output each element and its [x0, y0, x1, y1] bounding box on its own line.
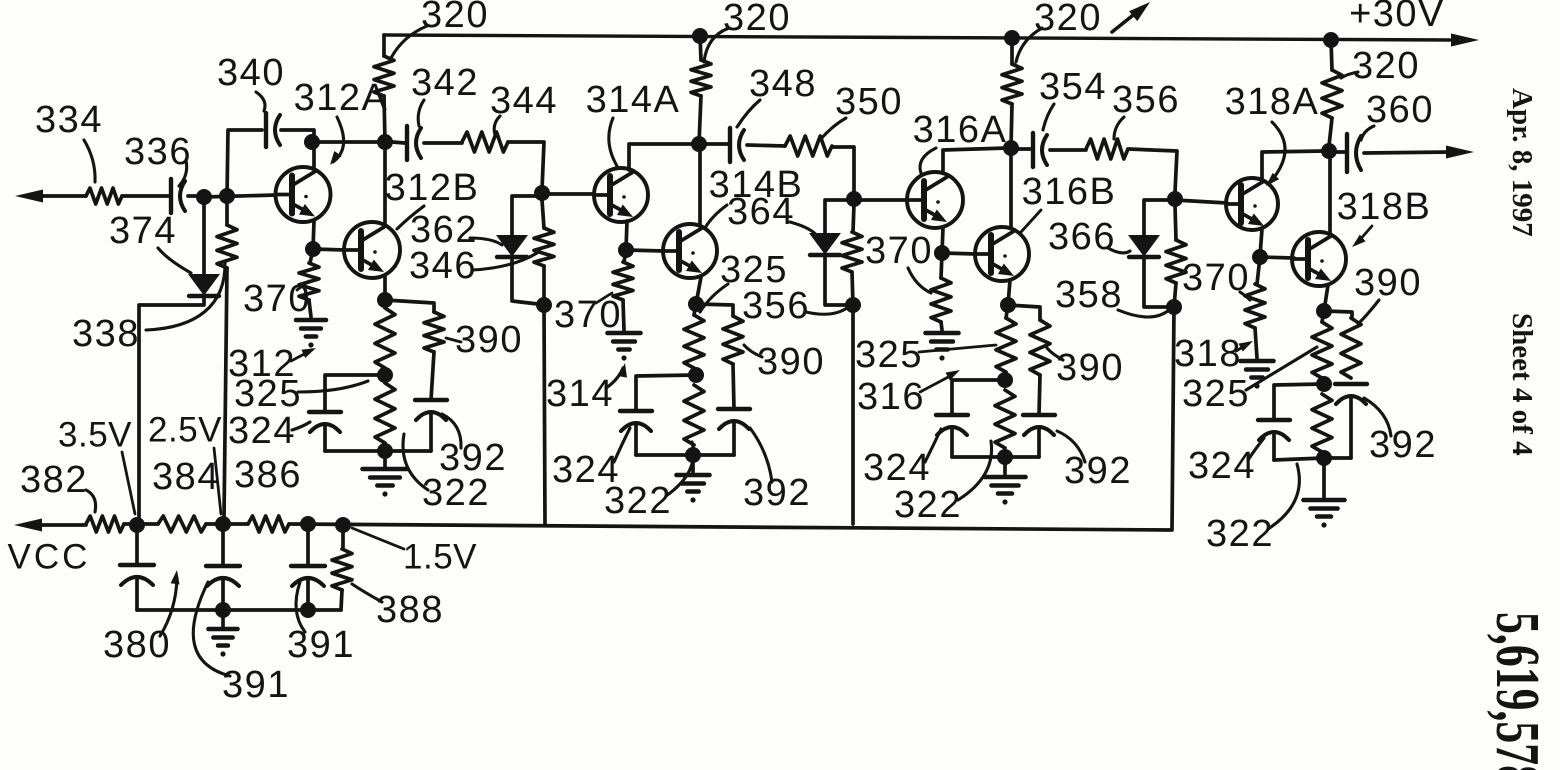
svg-text:VCC: VCC [8, 537, 91, 576]
wire cap392 bottom stage1 [385, 449, 431, 453]
node input A stage1 [196, 189, 212, 205]
resistor R325 stage3 upper [1006, 305, 1008, 318]
resistor R346 bias [542, 200, 544, 228]
resistor R358 bias stage4 [1175, 205, 1176, 240]
ground G322 stage3 [1003, 457, 1007, 474]
wire diode374 branch [202, 204, 206, 275]
wire diode366 bottom [1144, 257, 1168, 307]
input arrowhead 334 [15, 190, 43, 203]
wire emitter lead Q314A [626, 221, 627, 250]
wire base Q318B [1260, 257, 1294, 258]
wire base stage4 [1175, 200, 1227, 203]
resistor R338 bias [225, 203, 229, 225]
svg-text:325: 325 [234, 373, 302, 415]
node input stage4 [1167, 191, 1183, 207]
svg-text:370: 370 [243, 278, 311, 320]
svg-text:360: 360 [1366, 89, 1434, 131]
wire collector lead Q312B [383, 142, 387, 223]
transistor Q318A [1226, 178, 1278, 230]
svg-text:392: 392 [1369, 424, 1437, 466]
diode D366 [1130, 236, 1158, 255]
wire leader arrow top center [1112, 8, 1142, 32]
node rail-junction stage2 [692, 28, 708, 44]
svg-text:356: 356 [742, 285, 810, 327]
transistor Q318B [1292, 232, 1346, 286]
node mid divider stage4 [1316, 376, 1332, 392]
svg-text:342: 342 [411, 62, 479, 104]
resistor R320 stage2 [700, 36, 701, 60]
wire collector node stage1 [312, 140, 385, 144]
wire base stage1 [204, 195, 276, 197]
wire base stage3 [854, 198, 907, 202]
wire ground bus [137, 608, 341, 612]
wire emitter lead Q312A [313, 221, 314, 249]
svg-text:5,619,578: 5,619,578 [1483, 612, 1551, 770]
svg-text:390: 390 [757, 341, 825, 383]
wire base Q314B [626, 250, 664, 251]
svg-text:386: 386 [234, 454, 302, 496]
svg-text:388: 388 [376, 589, 444, 631]
wire collector lead Q314B [698, 144, 702, 225]
svg-text:354: 354 [1039, 66, 1107, 108]
resistor R390 stage3 [1008, 305, 1040, 320]
capacitor C360 output [1336, 150, 1345, 154]
svg-text:334: 334 [35, 99, 103, 141]
svg-text:338: 338 [72, 313, 140, 355]
capacitor C391a [221, 524, 225, 566]
svg-text:358: 358 [1055, 274, 1123, 316]
resistor R320 stage4 [1331, 40, 1332, 70]
resistor R325 stage2 upper [694, 304, 696, 315]
transistor Q316A [907, 172, 963, 228]
wire collector link Q316A [943, 148, 1008, 173]
capacitor C391b [306, 524, 310, 566]
resistor R390 stage4 [1324, 311, 1352, 318]
transistor Q314A [594, 168, 648, 222]
svg-text:316B: 316B [1022, 171, 1117, 213]
diode D362 [498, 236, 526, 255]
node emitter Q314B [688, 296, 704, 312]
svg-text:346: 346 [409, 245, 477, 287]
wire rail segment 3 [206, 522, 248, 526]
capacitor C348 coupling [706, 142, 728, 146]
capacitor C380 [135, 525, 139, 565]
svg-text:370: 370 [865, 230, 933, 272]
svg-text:390: 390 [1056, 347, 1124, 389]
ground G391 [221, 610, 225, 626]
node bias join stage4 [1166, 299, 1182, 315]
wire cap392 bottom stage2 [693, 453, 734, 457]
svg-text:366: 366 [1048, 216, 1116, 258]
capacitor C342 coupling [392, 142, 405, 143]
capacitor C324 stage1 [309, 410, 341, 414]
resistor R325 stage2 lower [684, 385, 704, 445]
wire diode374 to rail [139, 296, 204, 521]
resistor R325 stage1 lower [375, 383, 395, 443]
svg-text:318A: 318A [1225, 81, 1320, 123]
resistor R386 [248, 516, 289, 532]
svg-text:364: 364 [727, 191, 795, 233]
ground G322 stage4 [1322, 458, 1326, 497]
capacitor C324 stage3 [936, 413, 968, 417]
wire emitter lead Q316B [1008, 280, 1010, 305]
resistor R325 stage4 lower [1312, 394, 1332, 452]
node emitter Q318B [1316, 303, 1332, 319]
node bus junction b [300, 602, 316, 618]
resistor R356 bias stage3 [853, 204, 854, 232]
svg-text:340: 340 [217, 52, 285, 94]
node emitter Q316B [1000, 297, 1016, 313]
node mid divider stage2 [688, 367, 704, 383]
node collector stage3 [1003, 140, 1019, 156]
wire base Q316B [942, 253, 976, 254]
node bus junction a [215, 602, 231, 618]
svg-text:318B: 318B [1337, 186, 1432, 228]
svg-text:380: 380 [103, 624, 171, 666]
node collector stage1 [377, 134, 393, 150]
svg-text:391: 391 [287, 624, 355, 666]
svg-text:322: 322 [422, 472, 490, 514]
capacitor C336 input coupling [169, 179, 173, 213]
ground below R370 stage1 [296, 318, 326, 323]
svg-text:382: 382 [20, 459, 88, 501]
svg-text:322: 322 [1206, 513, 1274, 555]
resistor R356 coupling [1050, 148, 1086, 152]
wire bias to VCC rail stage3 [851, 305, 855, 524]
wire emitter lead Q314B [696, 277, 701, 304]
wire emitter lead Q312B [383, 277, 387, 300]
diode D374 [190, 275, 218, 294]
svg-text:320: 320 [1034, 0, 1102, 39]
svg-text:390: 390 [455, 319, 523, 361]
capacitor C392 stage1 [415, 398, 447, 402]
svg-text:316: 316 [857, 376, 925, 418]
svg-text:392: 392 [743, 472, 811, 514]
output arrowhead [1446, 146, 1474, 159]
node input B stage1 [219, 188, 235, 204]
node bias join stage2 [536, 297, 552, 313]
capacitor C392 stage2 [718, 407, 750, 411]
wire collector lead Q318B [1328, 151, 1332, 233]
resistor R388 [341, 525, 345, 549]
wire VCC rail [30, 523, 86, 527]
wire collector lead Q316B [1009, 148, 1013, 228]
node collector stage4 [1321, 143, 1337, 159]
node mid divider stage3 [997, 372, 1013, 388]
node emitter Q316A [934, 245, 950, 261]
svg-text:2.5V: 2.5V [148, 410, 222, 449]
wire cap324 bottom stage4 [1274, 458, 1324, 460]
svg-text:Apr. 8, 1997: Apr. 8, 1997 [1506, 88, 1538, 237]
ground below R370 stage2 [608, 331, 641, 336]
wire diode362 bottom [512, 257, 538, 304]
wire diode364 bottom [825, 255, 847, 305]
wire rail segment 2 [124, 522, 158, 526]
svg-text:320: 320 [723, 0, 791, 39]
svg-text:324: 324 [228, 410, 296, 452]
node input stage3 [846, 191, 862, 207]
capacitor C324 stage2 [620, 409, 652, 413]
power +30V rail arrowhead [1451, 34, 1479, 47]
resistor R370 stage2 [624, 250, 626, 262]
wire diode364 branch [825, 200, 854, 234]
resistor R344 coupling [424, 141, 462, 145]
svg-text:356: 356 [1112, 79, 1180, 121]
node mid divider stage1 [377, 367, 393, 383]
wire cap324 branch stage4 [1274, 384, 1324, 420]
node 1.5V rail junction b [335, 517, 351, 533]
svg-text:316A: 316A [913, 109, 1008, 151]
wire collector link Q318A [1262, 151, 1326, 179]
node bottom divider stage1 [377, 443, 393, 459]
resistor R325 stage3 lower [995, 390, 1015, 448]
wire base stage2 [542, 192, 594, 196]
wire cap392 bottom stage3 [1005, 455, 1039, 459]
svg-text:374: 374 [109, 210, 177, 252]
svg-text:+30V: +30V [1349, 0, 1445, 35]
svg-text:312B: 312B [385, 167, 480, 209]
diode D364 [811, 234, 839, 253]
svg-text:320: 320 [1352, 45, 1420, 87]
wire emitter lead Q318B [1324, 285, 1328, 311]
svg-text:320: 320 [421, 0, 489, 36]
capacitor C392 stage4 [1335, 382, 1367, 386]
svg-text:3.5V: 3.5V [58, 415, 132, 454]
svg-text:390: 390 [1354, 262, 1422, 304]
ground below R370 stage3 [926, 331, 959, 336]
wire cap324 bottom stage3 [952, 455, 1005, 459]
resistor R390 stage1 [385, 300, 434, 312]
VCC rail arrowhead [14, 519, 42, 532]
node cap340 tap stage1 [304, 134, 320, 150]
wire bias chain to rail stage4 [289, 307, 1174, 530]
transistor Q314B [663, 224, 717, 278]
wire diode362 branch [512, 196, 542, 236]
wire output stage4 [1364, 152, 1452, 153]
wire cap324 branch stage1 [325, 375, 385, 412]
node input stage2 [534, 185, 550, 201]
svg-text:392: 392 [1064, 450, 1132, 492]
node rail-junction stage3 [1004, 30, 1020, 46]
svg-text:325: 325 [855, 334, 923, 376]
capacitor C340 feedback [227, 130, 262, 196]
wire : +30V top rail [384, 35, 1450, 40]
capacitor C324 stage4 [1258, 418, 1290, 422]
svg-text:314A: 314A [586, 79, 681, 121]
node bottom divider stage2 [685, 447, 701, 463]
ground below R370 stage4 [1241, 359, 1274, 364]
node 3.5V [129, 517, 145, 533]
wire collector link Q314A [629, 144, 697, 170]
resistor R370 stage4 [1257, 257, 1260, 284]
svg-text:370: 370 [554, 294, 622, 336]
wire emitter lead Q318A [1260, 229, 1262, 256]
transistor Q316B [975, 227, 1029, 281]
resistor R325 stage1 upper [375, 308, 395, 368]
node collector stage2 [691, 136, 707, 152]
wire diode366 branch [1144, 200, 1175, 236]
resistor R325 stage4 upper [1322, 311, 1324, 322]
wire base Q312B [313, 249, 345, 250]
transistor Q312A [276, 167, 331, 222]
node bottom divider stage4 [1316, 450, 1332, 466]
svg-text:322: 322 [604, 480, 672, 522]
wire cap324 branch stage3 [952, 380, 1005, 415]
resistor R370 stage1 [310, 249, 313, 263]
ground G322 stage2 [691, 455, 695, 472]
node emitter Q312B [377, 292, 393, 308]
svg-text:325: 325 [1182, 373, 1250, 415]
node rail-junction stage4 [1323, 32, 1339, 48]
svg-text:391: 391 [222, 664, 290, 706]
node 2.5V [215, 516, 231, 532]
svg-text:336: 336 [124, 131, 192, 173]
wire cap324 bottom stage2 [636, 453, 693, 457]
transistor Q312B [344, 222, 400, 278]
svg-text:322: 322 [894, 484, 962, 526]
node emitter Q318A [1252, 249, 1268, 265]
node emitter Q314A [618, 242, 634, 258]
resistor R382 [86, 516, 124, 532]
resistor R370 stage3 [941, 253, 942, 278]
resistor R320 stage1 [382, 35, 386, 56]
node bias join stage3 [845, 297, 861, 313]
node bottom divider stage3 [997, 449, 1013, 465]
svg-text:324: 324 [863, 447, 931, 489]
wire emitter lead Q316A [942, 228, 943, 253]
wire cap324 branch stage2 [636, 375, 696, 411]
svg-text:314: 314 [546, 373, 614, 415]
wire cap392 bottom stage4 [1324, 456, 1351, 460]
node emitter Q312A [305, 241, 321, 257]
wire cap324 bottom stage1 [325, 449, 385, 453]
svg-text:1.5V: 1.5V [403, 537, 477, 576]
capacitor C392 stage3 [1023, 413, 1055, 417]
svg-text:324: 324 [1188, 445, 1256, 487]
resistor R350 coupling [747, 145, 785, 146]
resistor R390 stage2 [696, 304, 733, 316]
wire collector lead Q312A [312, 142, 316, 168]
wire input 334 [30, 194, 86, 198]
node 1.5V rail junction a [300, 516, 316, 532]
svg-text:318: 318 [1174, 333, 1242, 375]
resistor R384 [158, 516, 206, 532]
svg-text:384: 384 [152, 456, 220, 498]
resistor R320 stage3 [1010, 38, 1014, 64]
wire bias to VCC rail stage2 [544, 305, 545, 525]
capacitor C354 coupling [1016, 147, 1030, 151]
svg-text:312A: 312A [294, 77, 389, 119]
svg-text:Sheet 4 of 4: Sheet 4 of 4 [1506, 313, 1538, 456]
ground G322 stage1 [383, 451, 387, 468]
